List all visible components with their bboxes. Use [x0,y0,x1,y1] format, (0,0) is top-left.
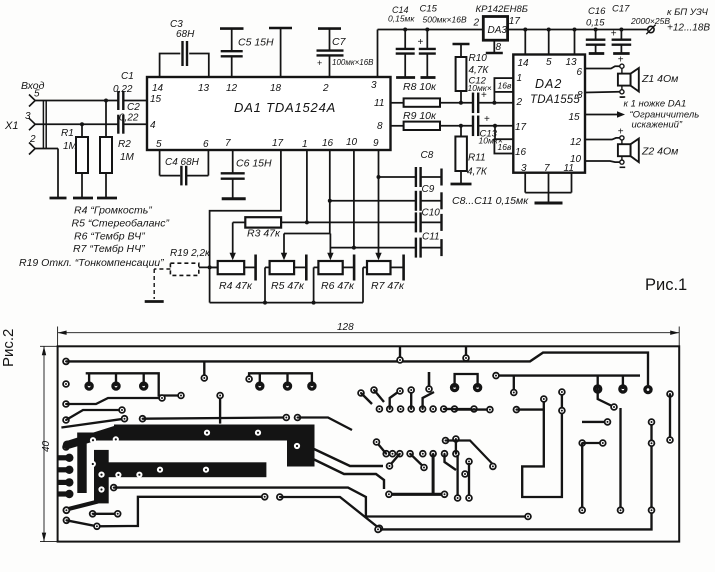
svg-text:17: 17 [272,138,284,149]
svg-text:11: 11 [374,98,384,109]
svg-text:R9 10к: R9 10к [403,110,437,122]
svg-text:4,7К: 4,7К [467,167,488,178]
svg-text:1М: 1М [63,141,78,152]
svg-text:14: 14 [152,83,164,94]
svg-text:+: + [618,126,624,137]
svg-text:14: 14 [518,58,530,69]
svg-text:100мк×16В: 100мк×16В [332,58,374,67]
svg-text:Вход: Вход [21,80,45,92]
svg-text:+: + [317,58,322,68]
svg-text:TDA1555: TDA1555 [530,94,580,106]
svg-text:R7 47к: R7 47к [371,280,405,292]
svg-text:R1: R1 [61,128,74,139]
svg-text:C6 15Н: C6 15Н [236,158,272,170]
svg-text:C5 15Н: C5 15Н [238,37,274,49]
svg-text:16: 16 [515,147,527,158]
svg-text:7: 7 [225,138,231,149]
svg-text:1: 1 [517,73,523,84]
svg-text:С8...С11 0,15мк: С8...С11 0,15мк [452,195,529,207]
svg-text:0,22: 0,22 [119,113,139,124]
svg-text:С11: С11 [422,232,440,243]
svg-text:12: 12 [570,137,582,148]
svg-text:8: 8 [377,121,383,132]
svg-text:R4 47к: R4 47к [219,280,253,292]
svg-text:DA3: DA3 [488,25,508,36]
svg-text:к 1 ножке DA1: к 1 ножке DA1 [624,98,687,109]
svg-text:15: 15 [150,94,162,105]
svg-text:0,22: 0,22 [113,84,133,95]
svg-text:5: 5 [34,89,40,100]
svg-text:DA2: DA2 [535,77,562,91]
svg-text:0,15: 0,15 [586,18,605,29]
svg-text:6: 6 [203,139,209,150]
svg-text:17: 17 [515,122,527,133]
svg-text:7: 7 [544,163,550,174]
svg-text:5: 5 [546,57,552,68]
svg-text:R3 47к: R3 47к [247,228,281,240]
svg-text:8: 8 [577,90,583,101]
svg-text:R6 “Тембр ВЧ”: R6 “Тембр ВЧ” [74,231,145,243]
svg-text:R11: R11 [468,153,486,164]
svg-text:68Н: 68Н [176,29,195,40]
svg-text:R19 Откл. “Тонкомпенсации”: R19 Откл. “Тонкомпенсации” [19,257,164,269]
svg-text:4,7К: 4,7К [469,65,490,76]
svg-text:3: 3 [371,80,377,91]
svg-text:40: 40 [41,440,52,452]
svg-text:С16: С16 [588,6,606,17]
svg-text:C1: C1 [121,71,134,82]
svg-text:С15: С15 [420,4,438,15]
svg-text:R8 10к: R8 10к [403,81,437,93]
svg-text:5: 5 [156,139,162,150]
svg-text:X1: X1 [4,120,18,132]
svg-text:R5 “Стереобаланс”: R5 “Стереобаланс” [72,218,170,230]
svg-text:2: 2 [473,18,480,29]
svg-text:R4 “Громкость”: R4 “Громкость” [74,205,152,217]
svg-text:R7 “Тембр НЧ”: R7 “Тембр НЧ” [73,243,145,255]
svg-text:Рис.1: Рис.1 [645,276,687,294]
svg-text:R6 47к: R6 47к [321,280,355,292]
svg-text:+: + [481,90,487,101]
svg-text:18: 18 [270,83,282,94]
svg-text:+: + [611,29,617,40]
svg-text:С9: С9 [422,184,435,195]
svg-text:R2: R2 [118,139,131,150]
svg-text:С17: С17 [612,4,630,15]
svg-text:500мк×16В: 500мк×16В [423,15,467,25]
svg-text:КР142ЕН8Б: КР142ЕН8Б [476,4,528,15]
svg-text:10: 10 [346,137,358,148]
svg-text:12: 12 [226,83,238,94]
svg-text:1: 1 [302,139,308,150]
svg-text:10мк×: 10мк× [468,83,492,93]
svg-text:15: 15 [569,112,581,123]
svg-text:+: + [418,37,424,48]
svg-text:к БП УЗЧ: к БП УЗЧ [667,7,709,18]
svg-text:6: 6 [577,67,583,78]
svg-text:16в: 16в [498,81,512,91]
svg-text:+: + [484,114,490,125]
svg-text:R10: R10 [469,53,488,64]
svg-text:17: 17 [509,16,521,27]
svg-text:4: 4 [150,120,156,131]
svg-text:R19 2,2к: R19 2,2к [170,248,211,259]
svg-text:C7: C7 [332,36,347,48]
svg-text:+: + [618,55,624,66]
svg-text:2: 2 [322,83,329,94]
svg-text:16в: 16в [498,142,512,152]
svg-text:+12...18В: +12...18В [667,23,710,34]
svg-text:DA1 TDA1524A: DA1 TDA1524A [234,100,336,115]
svg-text:0,15мк: 0,15мк [388,14,415,24]
svg-text:9: 9 [373,138,379,149]
svg-text:13: 13 [566,57,578,68]
svg-text:2000×25В: 2000×25В [630,16,670,26]
svg-text:искажений”: искажений” [632,119,683,130]
svg-text:16: 16 [322,138,334,149]
svg-text:2: 2 [516,97,523,108]
svg-text:Z2 4Ом: Z2 4Ом [641,146,678,158]
svg-text:C4 68Н: C4 68Н [165,157,200,168]
svg-text:С10: С10 [422,208,441,219]
svg-text:Z1 4Ом: Z1 4Ом [641,73,678,85]
svg-text:R5 47к: R5 47к [271,280,305,292]
svg-text:Рис.2: Рис.2 [0,329,17,367]
svg-text:1М: 1М [120,152,135,163]
svg-text:C2: C2 [127,102,140,113]
svg-text:8: 8 [496,42,502,53]
svg-text:11: 11 [564,163,574,174]
svg-text:3: 3 [521,163,527,174]
svg-text:13: 13 [198,83,210,94]
svg-text:128: 128 [337,322,354,333]
svg-text:С8: С8 [421,150,434,161]
